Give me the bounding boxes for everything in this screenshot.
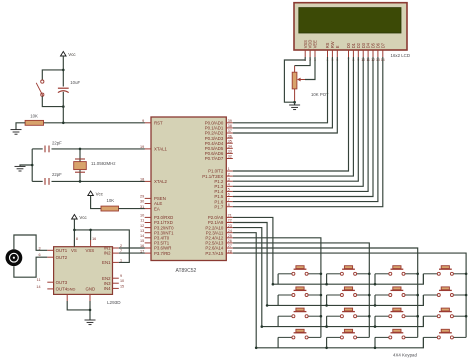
svg-text:22pF: 22pF	[52, 141, 62, 146]
junction pot bottom / VSS	[293, 101, 296, 104]
svg-text:4X4 Keypad: 4X4 Keypad	[393, 353, 417, 358]
svg-text:21: 21	[228, 214, 232, 218]
svg-text:17: 17	[140, 249, 144, 253]
label 10K POT	[311, 92, 329, 97]
wire U1 P2.1 to keypad row 2	[233, 223, 267, 306]
svg-text:P1.7: P1.7	[214, 204, 224, 209]
svg-text:P3.7/RD: P3.7/RD	[154, 251, 170, 256]
U1 right pin stubs	[226, 123, 233, 253]
wire GND1 down	[67, 301, 90, 310]
junction row 3 col 3	[374, 325, 377, 328]
wire VDD to pot top	[295, 57, 311, 66]
svg-text:9: 9	[120, 274, 122, 278]
junction switch-top / Vcc net	[62, 69, 65, 72]
svg-text:OUT1: OUT1	[56, 248, 68, 253]
svg-text:P0.7/AD7: P0.7/AD7	[205, 156, 224, 161]
U1 left pin labels	[154, 121, 174, 256]
junction col 2 row 1	[368, 273, 371, 276]
wire IN2 to U1 P3.7	[119, 252, 145, 254]
wire keypad row line 4	[256, 337, 423, 347]
junction row 1 col 2	[325, 283, 328, 286]
wire U1 P1.1 to LCD D1	[233, 57, 354, 176]
svg-text:IN2: IN2	[104, 251, 111, 256]
capacitor C2 22pF	[45, 178, 49, 185]
svg-text:10uF: 10uF	[70, 80, 80, 85]
wire pot bottom to ground	[294, 102, 296, 105]
junction col 2 row 2	[368, 294, 371, 297]
junction row 4 col 3	[374, 347, 377, 350]
wire Vcc to EN1	[74, 230, 129, 263]
wire R2 to U1 EA pin 31	[119, 208, 145, 210]
wire keypad row line 2	[267, 295, 423, 305]
IC U2 L293D body	[54, 247, 122, 305]
svg-text:37: 37	[228, 129, 232, 133]
wire VEE to pot wiper	[305, 57, 315, 80]
power flag Vcc (EA)	[88, 191, 104, 197]
wire row 1 btn 4 drop	[422, 274, 424, 284]
svg-text:AT89C52: AT89C52	[176, 268, 197, 274]
wire ground bus vertical	[31, 149, 33, 182]
push-button keypad SW31	[278, 308, 321, 318]
svg-text:D7: D7	[380, 42, 385, 48]
LCD pin labels	[303, 40, 386, 49]
wire Vcc to VS pin 8	[73, 219, 75, 247]
wire Vcc to R2	[91, 196, 101, 209]
svg-text:2: 2	[120, 244, 122, 248]
svg-text:VEE: VEE	[313, 40, 318, 48]
svg-text:22pF: 22pF	[52, 172, 62, 177]
wire VSS stub up to Vcc net	[90, 230, 92, 240]
wire C2 left to bus	[32, 180, 43, 182]
push-button keypad SW14	[423, 266, 466, 276]
wire U1 pin38 to LCD RW	[233, 57, 333, 128]
junction row 2 col 3	[374, 304, 377, 307]
push-button keypad SW44	[423, 329, 466, 339]
svg-text:22: 22	[228, 219, 232, 223]
svg-text:5: 5	[228, 188, 230, 192]
svg-text:Vcc: Vcc	[96, 192, 104, 197]
junction col 3 row 2	[416, 294, 419, 297]
junction col 2 row 3	[368, 315, 371, 318]
svg-text:32: 32	[228, 155, 232, 159]
svg-text:29: 29	[140, 195, 144, 199]
LCD pin stubs	[305, 50, 383, 57]
junction XTAL1/crystal	[79, 148, 82, 151]
U1 right pin numbers	[228, 119, 232, 253]
svg-text:34: 34	[228, 145, 232, 149]
LCD pin numbers	[304, 58, 385, 62]
svg-text:11: 11	[37, 278, 41, 282]
svg-text:6: 6	[228, 193, 230, 197]
wire U1 P2.6 to keypad column 3	[233, 248, 418, 337]
wire U1 P2.4 to keypad column 1	[233, 238, 321, 338]
wire U1 P2.5 to keypad column 2	[233, 243, 369, 338]
push-button keypad SW32	[327, 308, 370, 318]
svg-text:26: 26	[228, 239, 232, 243]
L293D top pins VS(8) VSS(16)	[74, 240, 90, 247]
push-button keypad SW12	[327, 266, 370, 276]
wire keypad row line 1	[273, 274, 424, 284]
svg-text:10K: 10K	[107, 198, 115, 203]
wire switch top branch	[42, 70, 63, 80]
svg-text:13: 13	[140, 229, 144, 233]
push-button keypad SW11	[278, 266, 321, 276]
push-button keypad SW41	[278, 329, 321, 339]
svg-text:4: 4	[228, 183, 230, 187]
svg-text:39: 39	[228, 119, 232, 123]
wire row 3 btn 4 drop	[422, 316, 424, 326]
svg-text:IN4: IN4	[104, 286, 111, 291]
svg-text:15: 15	[120, 284, 124, 288]
junction switch-bottom	[62, 105, 65, 108]
svg-text:6: 6	[38, 253, 40, 257]
label 10K (R2)	[107, 198, 115, 203]
wire U1 pin37 to LCD E	[233, 57, 337, 133]
junction col 1 row 3	[320, 315, 323, 318]
svg-text:16: 16	[140, 244, 144, 248]
junction row 3 riser	[261, 325, 264, 328]
svg-text:1: 1	[120, 258, 122, 262]
junction row 4 riser	[255, 347, 258, 350]
junction col 1 row 2	[320, 294, 323, 297]
svg-text:10: 10	[120, 279, 124, 283]
L293D right pins IN1 IN2 EN1 EN2 IN3 IN4	[113, 248, 119, 288]
wire U1 P2.3 to keypad row 4	[233, 233, 256, 348]
svg-text:VSS: VSS	[86, 248, 95, 253]
svg-text:E: E	[335, 45, 340, 48]
junction col 4 row 3	[465, 315, 468, 318]
svg-text:14: 14	[140, 234, 144, 238]
junction col 1 row 1	[320, 273, 323, 276]
svg-text:XTAL1: XTAL1	[154, 147, 168, 152]
svg-text:16: 16	[92, 237, 96, 241]
wire row 3 btn 2 drop	[326, 316, 328, 326]
svg-text:GND: GND	[67, 287, 76, 292]
label 11.0592MHz	[91, 161, 116, 166]
svg-text:7: 7	[120, 249, 122, 253]
svg-text:8: 8	[76, 237, 78, 241]
junction col 4 row 2	[465, 294, 468, 297]
junction row 1 col 3	[374, 283, 377, 286]
svg-text:P2.7/A15: P2.7/A15	[205, 251, 223, 256]
wire XTAL2 net	[52, 180, 145, 182]
junction Vcc/VS	[73, 229, 76, 232]
svg-text:38: 38	[228, 124, 232, 128]
svg-text:7: 7	[228, 198, 230, 202]
svg-text:12: 12	[140, 224, 144, 228]
svg-text:11.0592MHz: 11.0592MHz	[91, 161, 116, 166]
power flag Vcc (reset)	[61, 52, 77, 58]
svg-text:30: 30	[140, 200, 144, 204]
junction Vcc/VSS	[89, 229, 92, 232]
wire VSS to ground net	[284, 57, 305, 102]
wire row 2 btn 3 drop	[374, 295, 376, 305]
svg-text:10: 10	[140, 214, 144, 218]
wire row 1 btn 3 drop	[374, 274, 376, 284]
capacitor C1 22pF	[45, 146, 49, 153]
svg-text:27: 27	[228, 244, 232, 248]
resistor R2 10K (EA pull-up)	[101, 206, 119, 211]
svg-text:14: 14	[36, 285, 40, 289]
svg-text:OUT3: OUT3	[56, 280, 68, 285]
ground (pot)	[289, 105, 300, 110]
junction row 3 col 2	[325, 325, 328, 328]
svg-text:GND: GND	[86, 287, 96, 292]
wire U1 P1.5 to LCD D5	[233, 57, 373, 197]
wire row 4 btn 3 drop	[374, 337, 376, 347]
junction L293D grounds	[89, 309, 92, 312]
svg-text:3: 3	[38, 246, 40, 250]
motor M1 (DC motor)	[6, 249, 23, 266]
L293D bottom pins GND GND	[67, 294, 90, 301]
svg-text:10K POT: 10K POT	[311, 92, 329, 97]
potentiometer RV1 10K POT	[292, 66, 305, 103]
label 4X4 Keypad	[393, 353, 417, 358]
wire C1 left to bus	[32, 148, 43, 150]
svg-text:1: 1	[228, 167, 230, 171]
junction col 3 row 1	[416, 273, 419, 276]
wire row 3 btn 1 drop	[277, 316, 279, 326]
wire U1 P1.4 to LCD D4	[233, 57, 368, 191]
svg-text:35: 35	[228, 139, 232, 143]
push-button reset switch	[36, 80, 44, 96]
svg-text:3: 3	[228, 177, 230, 181]
wire row 2 btn 1 drop	[277, 295, 279, 305]
U1 left pin stubs	[145, 123, 151, 253]
wire row 2 btn 2 drop	[326, 295, 328, 305]
svg-text:OUT2: OUT2	[56, 255, 68, 260]
label 22pF (C2)	[52, 172, 62, 177]
wire U1 P2.0 to keypad row 1	[233, 217, 273, 284]
svg-text:10K: 10K	[30, 114, 38, 119]
push-button keypad SW42	[327, 329, 370, 339]
junction XTAL2/crystal	[79, 180, 82, 183]
junction ground bus	[31, 164, 34, 167]
svg-text:15: 15	[140, 239, 144, 243]
ground (L293D)	[85, 320, 96, 325]
svg-text:EA: EA	[154, 206, 160, 211]
wire GND2 to ground	[89, 301, 91, 320]
U1 left pin numbers	[140, 119, 144, 253]
svg-text:31: 31	[140, 205, 144, 209]
svg-text:8: 8	[228, 203, 230, 207]
junction row 2 riser	[266, 304, 269, 307]
wire U1 P1.6 to LCD D6	[233, 57, 378, 202]
wire row 4 btn 1 drop	[277, 337, 279, 347]
crystal X1 11.0592MHz	[74, 159, 87, 172]
svg-text:XTAL2: XTAL2	[154, 179, 168, 184]
wire row 2 btn 4 drop	[422, 295, 424, 305]
push-button keypad SW23	[375, 287, 418, 297]
wire motor bottom to OUT2	[14, 257, 47, 277]
svg-text:2: 2	[228, 172, 230, 176]
resistor R1 10K (reset pulldown)	[25, 120, 43, 125]
push-button keypad SW33	[375, 308, 418, 318]
svg-text:16x2 LCD: 16x2 LCD	[391, 53, 411, 58]
svg-text:EN1: EN1	[102, 260, 111, 265]
svg-text:VS: VS	[71, 248, 77, 253]
wire row 1 btn 2 drop	[326, 274, 328, 284]
wire bus to ground	[20, 165, 32, 166]
label 10uF	[70, 80, 80, 85]
junction row 1 riser	[272, 283, 275, 286]
wire row 4 btn 4 drop	[422, 337, 424, 347]
push-button keypad SW13	[375, 266, 418, 276]
wire row 3 btn 3 drop	[374, 316, 376, 326]
wire U1 pin39 to LCD RS	[233, 57, 328, 123]
svg-text:L293D: L293D	[107, 300, 121, 305]
svg-text:11: 11	[140, 219, 144, 223]
push-button keypad SW43	[375, 329, 418, 339]
svg-text:Vcc: Vcc	[68, 52, 76, 57]
wire U1 P1.3 to LCD D3	[233, 57, 363, 186]
push-button keypad SW21	[278, 287, 321, 297]
svg-text:9: 9	[142, 119, 144, 123]
svg-text:19: 19	[140, 145, 144, 149]
junction RST net	[62, 122, 65, 125]
junction row 4 col 2	[325, 347, 328, 350]
wire row 4 btn 2 drop	[326, 337, 328, 347]
svg-text:33: 33	[228, 150, 232, 154]
svg-text:25: 25	[228, 234, 232, 238]
wire switch bottom branch	[42, 96, 63, 106]
LCD LCD1 16x2 display body	[294, 3, 410, 58]
power flag Vcc (L293D)	[72, 215, 88, 221]
svg-text:18: 18	[140, 178, 144, 182]
label 22pF (C1)	[52, 141, 62, 146]
wire IN1 to U1 P3.6	[119, 247, 145, 249]
svg-text:Vcc: Vcc	[79, 215, 87, 220]
svg-text:23: 23	[228, 224, 232, 228]
wire crystal vertical	[79, 149, 81, 182]
wire Vcc to capacitor C1 top	[62, 56, 64, 87]
ground (reset)	[11, 130, 22, 135]
junction col 4 row 1	[465, 273, 468, 276]
wire RST net to U1 pin 9	[44, 122, 145, 124]
svg-text:RST: RST	[154, 121, 163, 126]
push-button keypad SW22	[327, 287, 370, 297]
wire row 1 btn 1 drop	[277, 274, 279, 284]
U1 right pin labels	[202, 121, 224, 256]
L293D left pins OUT1 OUT2 OUT3 OUT4	[47, 250, 53, 289]
svg-text:28: 28	[228, 249, 232, 253]
ground (crystal)	[15, 166, 26, 171]
capacitor C3 10uF (reset)	[58, 88, 69, 92]
wire XTAL1 net	[52, 148, 145, 150]
svg-text:24: 24	[228, 229, 232, 233]
wire U1 P1.7 to LCD D7	[233, 57, 383, 207]
wire R1 to ground	[16, 123, 25, 130]
push-button keypad SW34	[423, 308, 466, 318]
push-button keypad SW24	[423, 287, 466, 297]
wire U1 P1.0 to LCD D0	[233, 57, 349, 171]
IC U1 AT89C52 body	[151, 117, 226, 274]
wire motor top to OUT1	[14, 235, 47, 250]
wire U1 P2.7 to keypad column 4	[233, 253, 466, 337]
label 10K (R1)	[30, 114, 38, 119]
junction row 2 col 2	[325, 304, 328, 307]
wire U1 P2.2 to keypad row 3	[233, 228, 262, 327]
svg-text:36: 36	[228, 134, 232, 138]
junction col 3 row 3	[416, 315, 419, 318]
wire keypad row line 3	[262, 316, 424, 326]
wire U1 P1.2 to LCD D2	[233, 57, 358, 181]
wire capacitor bottom to RST net	[62, 92, 64, 123]
